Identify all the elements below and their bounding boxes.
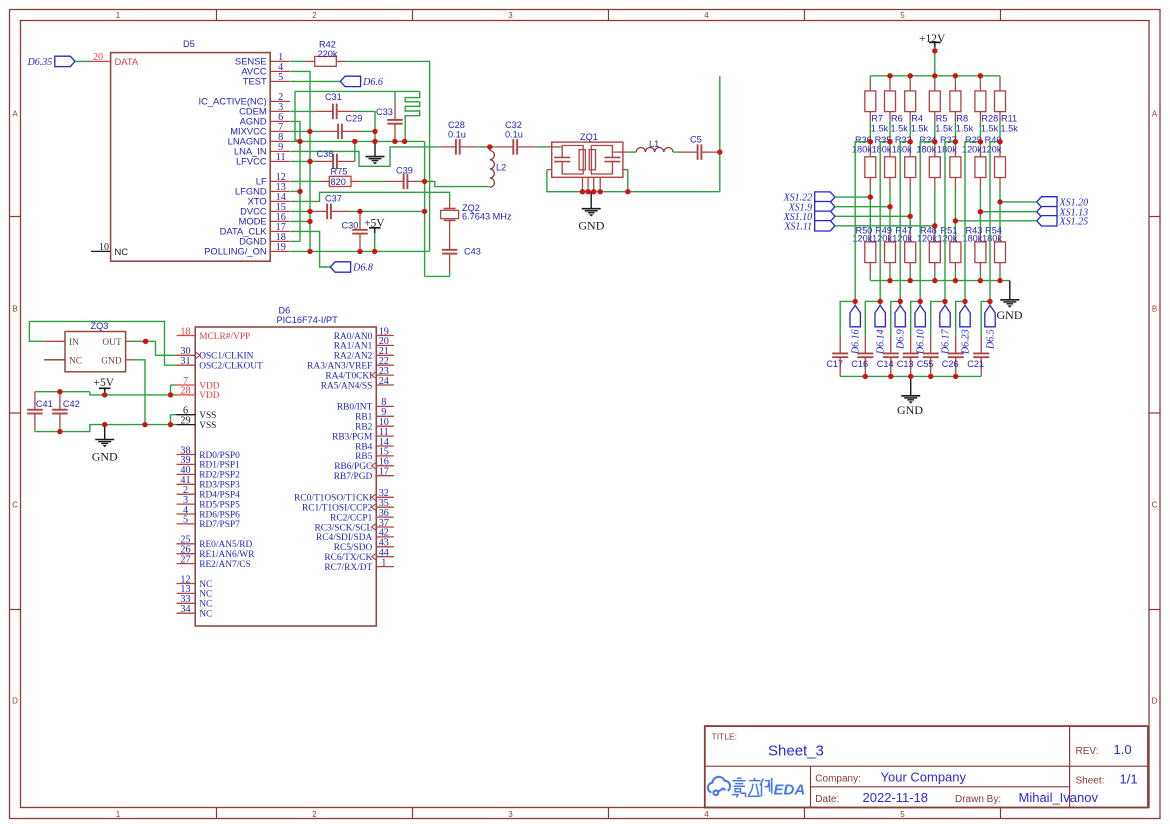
wire D6.35 to DATA [75, 60, 91, 62]
svg-text:VDD: VDD [199, 391, 220, 401]
svg-text:3: 3 [508, 810, 513, 819]
wire C29 right [360, 130, 375, 132]
svg-text:RA5/AN4/SS: RA5/AN4/SS [321, 381, 373, 391]
svg-text:180k: 180k [872, 145, 892, 155]
svg-text:RC6/TX/CK: RC6/TX/CK [324, 553, 372, 563]
wire pin11 LFVCC [290, 160, 310, 162]
D5 pin 1 SENSE [270, 60, 290, 62]
wire C38 to GND bus [354, 141, 356, 161]
wire +12V bus [870, 75, 1000, 77]
svg-text:TITLE:: TITLE: [712, 732, 738, 742]
D5 pin 3 CDEM [270, 110, 290, 112]
svg-text:C14: C14 [877, 359, 894, 369]
svg-text:1.5k: 1.5k [871, 123, 889, 133]
svg-text:D5: D5 [183, 39, 195, 49]
svg-text:RD6/PSP6: RD6/PSP6 [199, 510, 240, 520]
D6 pin 21 RA2/AN2 [376, 354, 394, 356]
wire pin17 DATA_CLK to D6.8 [290, 231, 330, 267]
net flag XS1.11 [815, 221, 835, 231]
svg-text:18: 18 [180, 326, 190, 337]
svg-text:NC: NC [199, 590, 212, 600]
D5 pin 20 DATA [91, 60, 111, 62]
svg-text:3: 3 [508, 11, 513, 20]
wire pin19 POLLING bus [290, 250, 429, 252]
capacitor C13 [910, 335, 912, 353]
D6 pin 34 NC [177, 612, 196, 614]
svg-text:C31: C31 [325, 92, 342, 102]
svg-text:D6.23: D6.23 [960, 329, 971, 355]
svg-text:OSC2/CLKOUT: OSC2/CLKOUT [199, 362, 263, 372]
resistor R75 [319, 180, 329, 182]
D5 pin 15 DVCC [270, 210, 290, 212]
svg-text:RA0/AN0: RA0/AN0 [334, 332, 373, 342]
svg-text:Your Company: Your Company [881, 770, 967, 785]
svg-text:28: 28 [180, 386, 190, 397]
D6 pin 9 RB1 [376, 415, 394, 417]
ZQ3 pin NC [44, 359, 65, 361]
wire VSS6 link [170, 415, 172, 425]
D6 pin 19 RA0/AN0 [376, 335, 394, 337]
svg-text:180k: 180k [982, 234, 1002, 244]
D5 pin 4 AVCC [270, 70, 290, 72]
resistor R34 [934, 142, 936, 147]
D6 pin 14 RB4 [376, 445, 394, 447]
svg-text:RD3/PSP3: RD3/PSP3 [199, 481, 240, 491]
svg-text:2022-11-18: 2022-11-18 [863, 790, 929, 805]
D6 pin 39 RD1/PSP1 [177, 463, 196, 465]
svg-text:B: B [1152, 305, 1157, 314]
ZQ3 pin GND [126, 359, 134, 361]
D6 pin 13 NC [177, 592, 196, 594]
svg-text:0.1u: 0.1u [448, 129, 466, 139]
wire VCC rail [309, 131, 311, 251]
capacitor C29 [320, 130, 338, 132]
svg-text:10: 10 [99, 242, 109, 253]
svg-text:RE2/AN7/CS: RE2/AN7/CS [199, 560, 251, 570]
D6 pin 15 RB5 [376, 455, 394, 457]
D6 pin 42 RC4/SDI/SDA [376, 536, 394, 538]
resistor R49 [889, 207, 891, 232]
svg-text:NC: NC [199, 580, 212, 590]
svg-text:6.7643 MHz: 6.7643 MHz [462, 212, 512, 222]
capacitor C33 [394, 102, 396, 120]
svg-text:2: 2 [312, 810, 317, 819]
D6 pin 22 RA3/AN3/VREF [376, 364, 394, 366]
svg-text:C: C [12, 501, 18, 510]
svg-text:Mihail_Ivanov: Mihail_Ivanov [1019, 790, 1099, 805]
resistor R47 [909, 216, 911, 232]
svg-text:RB7/PGD: RB7/PGD [334, 472, 373, 482]
svg-text:RB6/PGC: RB6/PGC [334, 462, 372, 472]
svg-text:RB1: RB1 [355, 413, 373, 423]
svg-text:ZQ3: ZQ3 [91, 321, 109, 331]
wire pin6 AGND down [290, 121, 300, 141]
wire C39 node to L2 bottom [425, 181, 490, 186]
resistor R48 [934, 226, 936, 232]
net flag XS1.10 [815, 211, 835, 221]
wire C43 bottom [449, 272, 451, 276]
wire divider tap to flag column [900, 142, 910, 302]
inductor L1 [636, 148, 673, 153]
svg-text:D6.16: D6.16 [851, 329, 862, 355]
svg-text:GND: GND [897, 403, 923, 417]
wire pin18 DGND [290, 240, 300, 242]
svg-text:NC: NC [199, 600, 212, 610]
svg-text:RC3/SCK/SCL: RC3/SCK/SCL [314, 523, 372, 533]
D6 pin 6 VSS [177, 414, 196, 416]
svg-text:EDA: EDA [774, 782, 806, 799]
svg-text:OUT: OUT [102, 338, 122, 348]
svg-text:19: 19 [276, 242, 286, 253]
ZQ3 pin OUT [126, 340, 134, 342]
resistor R4 [909, 76, 911, 81]
capacitor C39 [386, 180, 404, 182]
resistor R6 [889, 76, 891, 81]
net flag D6.35 [55, 56, 75, 66]
ground GND right [1009, 281, 1011, 300]
capacitor C38 [315, 160, 333, 162]
wire C37 to C30/+5V node [349, 210, 425, 212]
wire pin12 LF to R75 [290, 180, 319, 182]
wire pin7 MIXVCC to C29 [290, 130, 320, 132]
D5 pin 10 NC [91, 250, 111, 252]
svg-text:1.5k: 1.5k [911, 123, 929, 133]
wire divider tap to flag column [855, 142, 870, 302]
wire R75 to C39 [361, 180, 386, 182]
ground GND bottom [910, 376, 912, 395]
wire C31 right [355, 111, 375, 131]
svg-text:RB0/INT: RB0/INT [337, 403, 373, 413]
D5 pin 12 LF [270, 180, 290, 182]
svg-text:RD1/PSP1: RD1/PSP1 [199, 461, 240, 471]
wire pin9 LNA_IN detour [290, 147, 438, 166]
frame column ticks [216, 10, 218, 21]
wire ZQ1 out to L1 [627, 151, 636, 153]
svg-text:R8: R8 [956, 114, 968, 124]
net flag D6.8 [330, 262, 350, 272]
D6 pin 18 MCLR#/VPP [177, 335, 196, 337]
svg-text:RA1/AN1: RA1/AN1 [334, 342, 373, 352]
svg-text:Drawn By:: Drawn By: [955, 794, 1001, 805]
net flag D6.17 [940, 305, 950, 327]
wire C33 bottom [394, 138, 396, 141]
svg-text:120k: 120k [892, 234, 912, 244]
wire divider tap to flag column [965, 142, 980, 302]
svg-text:1.5k: 1.5k [956, 123, 974, 133]
title block [705, 726, 1148, 807]
svg-text:REV:: REV: [1076, 746, 1099, 757]
svg-text:2: 2 [312, 11, 317, 20]
svg-text:RC0/T1OSO/T1CKI: RC0/T1OSO/T1CKI [294, 494, 372, 504]
inductor L2 [490, 151, 495, 188]
svg-text:20: 20 [93, 52, 103, 63]
capacitor C42 [59, 392, 61, 410]
resistor R33 [909, 142, 911, 147]
resistor R35 [889, 142, 891, 147]
capacitor C16 [864, 335, 866, 353]
svg-text:RC4/SDI/SDA: RC4/SDI/SDA [316, 533, 372, 543]
D6 pin 40 RD2/PSP2 [177, 473, 196, 475]
net flag XS1.20 [1037, 197, 1057, 207]
svg-text:C43: C43 [464, 247, 481, 257]
net flag XS1.22 [815, 192, 835, 202]
wire C28 to C32 [478, 146, 495, 148]
D6 pin 11 RB3/PGM [376, 435, 394, 437]
wire ZQ2 to C43 [449, 229, 451, 233]
D5 pin 16 MODE [270, 220, 290, 222]
svg-text:RA2/AN2: RA2/AN2 [334, 352, 373, 362]
svg-text:L1: L1 [649, 139, 659, 149]
svg-text:RC5/SDO: RC5/SDO [334, 543, 373, 553]
wire IN loop to OSC2 [29, 321, 176, 365]
wire pin15 DVCC [290, 210, 310, 212]
svg-text:RE1/AN6/WR: RE1/AN6/WR [199, 550, 255, 560]
D5 pin 13 LFGND [270, 190, 290, 192]
svg-text:C13: C13 [897, 359, 914, 369]
svg-text:C55: C55 [917, 359, 934, 369]
D5 pin 17 DATA_CLK [270, 230, 290, 232]
wire VDD7 stub link [171, 384, 177, 386]
svg-text:34: 34 [180, 604, 190, 615]
svg-text:1.5k: 1.5k [891, 123, 909, 133]
svg-text:Company:: Company: [815, 774, 861, 785]
svg-text:R5: R5 [936, 114, 948, 124]
D5 pin 9 LNA_IN [270, 150, 290, 152]
svg-text:120k: 120k [982, 145, 1002, 155]
svg-text:POLLING/_ON: POLLING/_ON [204, 246, 267, 257]
wire capacitor bus [840, 375, 981, 377]
wire R42 to POLLING [346, 61, 429, 251]
svg-text:C42: C42 [63, 399, 80, 409]
svg-text:RD7/PSP7: RD7/PSP7 [199, 520, 240, 530]
svg-text:D6.17: D6.17 [940, 328, 951, 355]
wire bus to GND right [1009, 281, 1011, 289]
svg-text:D6.35: D6.35 [27, 57, 53, 68]
wire ZQ3 GND down [134, 360, 145, 425]
svg-text:TEST: TEST [243, 76, 267, 87]
svg-text:C21: C21 [967, 359, 984, 369]
ZQ3 pin IN [44, 340, 65, 342]
svg-text:GND: GND [92, 450, 118, 464]
net flag D6.6 [340, 76, 360, 86]
wire to C43 bottom [425, 275, 450, 277]
D5 pin 5 TEST [270, 80, 290, 82]
svg-text:1.5k: 1.5k [1001, 123, 1019, 133]
svg-text:RA4/T0CKI: RA4/T0CKI [325, 371, 372, 381]
ground GND filter [590, 192, 592, 209]
wire DVCC node vertical [424, 141, 426, 276]
svg-text:1.0: 1.0 [1114, 742, 1132, 757]
svg-text:RC1/T1OSI/CCP2: RC1/T1OSI/CCP2 [302, 504, 373, 514]
resistor R5 [934, 76, 936, 81]
capacitor C43 [449, 232, 451, 250]
D5 pin 2 IC_ACTIVE(NC) [270, 100, 290, 102]
svg-text:XS1.25: XS1.25 [1059, 216, 1089, 227]
svg-text:5: 5 [900, 11, 905, 20]
wire pin14 XTO to ZQ2 [290, 192, 449, 202]
svg-text:ZQ1: ZQ1 [580, 132, 598, 142]
EasyEDA logo [708, 777, 730, 795]
D6 pin 44 RC6/TX/CK [376, 556, 394, 558]
svg-text:17: 17 [379, 467, 389, 478]
IC D5 receiver [111, 53, 271, 262]
wire pin13 LFGND [290, 190, 300, 192]
svg-text:RE0/AN5/RD: RE0/AN5/RD [199, 540, 252, 550]
wire +5V rail to VDD [90, 392, 177, 395]
oscillator ZQ3 [65, 332, 126, 372]
junction dots rf [487, 144, 492, 149]
svg-text:RA3/AN3/VREF: RA3/AN3/VREF [307, 362, 372, 372]
svg-text:XS1.11: XS1.11 [783, 221, 812, 232]
svg-text:1.5k: 1.5k [981, 123, 999, 133]
D6 pin 25 RE0/AN5/RD [177, 543, 196, 545]
svg-text:GND: GND [997, 308, 1023, 322]
D6 pin 23 RA4/T0CKI [376, 374, 394, 376]
capacitor C55 [930, 335, 932, 353]
svg-text:R28: R28 [981, 114, 998, 124]
svg-text:5: 5 [900, 810, 905, 819]
svg-text:D6.6: D6.6 [362, 77, 383, 88]
wire pin5 TEST to D6.6 [290, 80, 340, 82]
D6 pin 32 RC0/T1OSO/T1CKI [376, 496, 394, 498]
svg-text:D6.9: D6.9 [896, 329, 907, 350]
D6 pin 2 RD4/PSP4 [177, 493, 196, 495]
D6 pin 24 RA5/AN4/SS [376, 384, 394, 386]
wire C31/C29 junction down to GND bus [374, 131, 376, 141]
svg-text:C41: C41 [36, 399, 53, 409]
svg-text:31: 31 [180, 356, 190, 367]
svg-text:1: 1 [116, 11, 121, 20]
svg-text:RD5/PSP5: RD5/PSP5 [199, 500, 240, 510]
D6 pin 1 RC7/RX/DT [376, 566, 394, 568]
svg-text:180k: 180k [892, 145, 912, 155]
svg-text:1: 1 [381, 557, 386, 568]
svg-text:VDD: VDD [199, 381, 220, 391]
svg-text:LFVCC: LFVCC [236, 156, 267, 167]
svg-text:C33: C33 [376, 107, 393, 117]
wire pin4 AVCC to VCC rail [290, 71, 310, 131]
svg-text:D: D [12, 697, 18, 706]
svg-text:C17: C17 [826, 359, 843, 369]
wire meander top [295, 90, 420, 92]
junction dots left block [307, 129, 312, 134]
D6 pin 7 VDD [177, 384, 196, 386]
svg-text:180k: 180k [916, 145, 936, 155]
wire AGND vertical [299, 141, 301, 241]
svg-text:VSS: VSS [199, 421, 216, 431]
wire from meander line down [295, 91, 300, 140]
net flag D6.14 [875, 305, 885, 327]
wire pin1 to R42 [290, 60, 305, 62]
svg-text:0.1u: 0.1u [505, 129, 523, 139]
svg-text:C16: C16 [851, 359, 868, 369]
svg-text:IN: IN [69, 338, 79, 348]
svg-text:1/1: 1/1 [1120, 772, 1138, 787]
ZQ1 right gnd stub [623, 169, 628, 171]
svg-text:D: D [1152, 697, 1158, 706]
svg-text:D6.14: D6.14 [876, 329, 887, 355]
svg-text:R11: R11 [1001, 114, 1017, 124]
svg-text:4: 4 [704, 11, 709, 20]
svg-text:D6: D6 [279, 306, 291, 316]
svg-text:B: B [12, 305, 17, 314]
D6 pin 27 RE2/AN7/CS [177, 563, 196, 565]
D6 pin 12 NC [177, 583, 196, 585]
svg-text:A: A [1152, 110, 1158, 119]
wire C41/C42 bottom rail [35, 425, 177, 432]
svg-text:C26: C26 [942, 359, 959, 369]
svg-text:D6.10: D6.10 [916, 329, 927, 355]
capacitor C14 [890, 335, 892, 353]
D5 pin 6 AGND [270, 120, 290, 122]
junction dots zq3 area [57, 389, 62, 394]
D6 pin 30 OSC1/CLKIN [177, 354, 196, 356]
svg-text:180k: 180k [937, 145, 957, 155]
svg-text:RC2/CCP1: RC2/CCP1 [330, 513, 373, 523]
wire flag node to capacitor [931, 301, 945, 335]
wire divider tap to flag column [945, 142, 955, 302]
capacitor C26 [955, 335, 957, 353]
D6 pin 8 RB0/INT [376, 405, 394, 407]
capacitor C32 [495, 146, 513, 148]
wire C32 to ZQ1 [535, 146, 548, 148]
frame row ticks [10, 216, 21, 218]
svg-text:120k: 120k [872, 234, 892, 244]
wire meander [405, 91, 420, 141]
svg-text:4: 4 [704, 810, 709, 819]
D5 pin 14 XTO [270, 200, 290, 202]
svg-text:OSC1/CLKIN: OSC1/CLKIN [199, 352, 253, 362]
junction dots right network [887, 73, 892, 78]
wire C33 top [394, 91, 396, 101]
svg-text:Date:: Date: [815, 794, 839, 805]
D6 pin 4 RD6/PSP6 [177, 513, 196, 515]
capacitor C30 [359, 211, 361, 229]
svg-text:29: 29 [180, 415, 190, 426]
svg-text:RB2: RB2 [355, 423, 373, 433]
capacitor C31 [315, 110, 333, 112]
D6 pin 29 VSS [177, 424, 196, 426]
D6 pin 16 RB6/PGC [376, 465, 394, 467]
svg-text:RB4: RB4 [355, 442, 373, 452]
D5 pin 19 POLLING/_ON [270, 250, 290, 252]
svg-text:RC7/RX/DT: RC7/RX/DT [324, 563, 372, 573]
net flag D6.10 [915, 305, 925, 327]
svg-text:RB5: RB5 [355, 452, 373, 462]
svg-text:C37: C37 [325, 194, 342, 204]
svg-text:NC: NC [69, 356, 82, 366]
svg-text:120k: 120k [937, 234, 957, 244]
resistor R36 [869, 142, 871, 147]
svg-text:C39: C39 [396, 166, 413, 176]
net flag XS1.25 [1037, 216, 1057, 226]
wire bottom bus row3 [870, 280, 1010, 282]
svg-text:24: 24 [379, 376, 389, 387]
svg-text:5: 5 [183, 515, 188, 526]
capacitor C17 [839, 335, 841, 353]
svg-text:RD4/PSP4: RD4/PSP4 [199, 491, 240, 501]
svg-text:1.5k: 1.5k [935, 123, 953, 133]
svg-text:GND: GND [578, 218, 604, 232]
svg-text:L2: L2 [496, 163, 506, 173]
D5 pin 8 LNAGND [270, 140, 290, 142]
wire antenna vertical [719, 76, 721, 192]
D6 pin 37 RC3/SCK/SCL [376, 526, 394, 528]
wire flag node to capacitor [891, 301, 900, 335]
svg-text:C30: C30 [342, 221, 359, 231]
svg-text:D6.8: D6.8 [352, 263, 373, 274]
ground GND near D5 [374, 141, 376, 156]
